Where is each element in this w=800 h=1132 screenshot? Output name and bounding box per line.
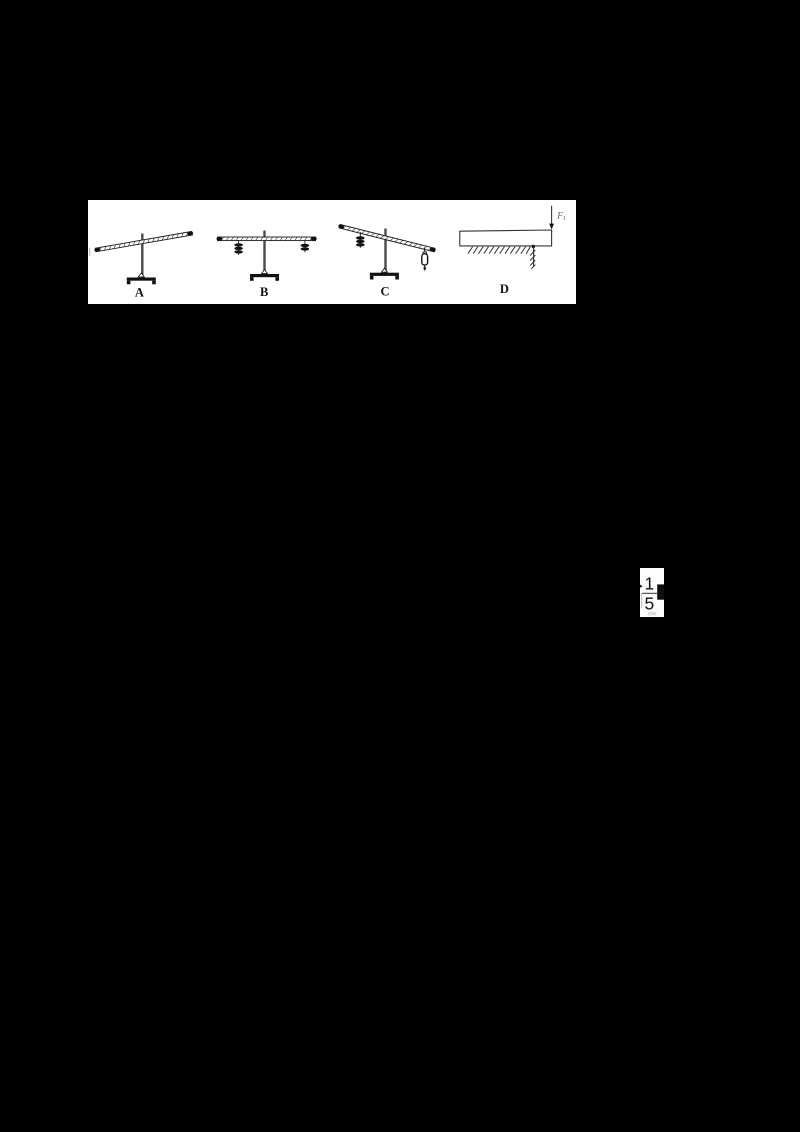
svg-text:1: 1 <box>645 574 655 594</box>
svg-text:F1: F1 <box>556 211 566 223</box>
svg-text:C: C <box>380 285 389 299</box>
svg-text:D: D <box>500 282 509 296</box>
svg-text:5: 5 <box>645 594 655 614</box>
svg-text:B: B <box>260 285 268 299</box>
svg-text:A: A <box>135 286 144 300</box>
